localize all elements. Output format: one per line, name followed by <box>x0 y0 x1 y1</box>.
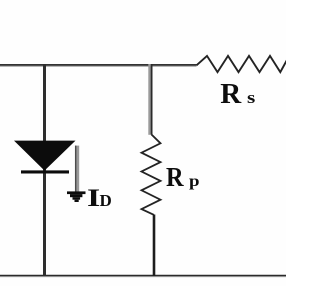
current arrow ID shaft <box>75 146 79 192</box>
label ID main I <box>87 185 100 211</box>
wire Rp branch upper (gray) <box>148 64 152 135</box>
wire diode branch vertical <box>43 64 46 276</box>
label Rs main R <box>220 80 241 109</box>
wire bottom horizontal bus <box>0 275 286 276</box>
wire top horizontal bus <box>0 65 197 66</box>
current arrow ID head <box>67 191 86 202</box>
wire Rp branch lower <box>153 215 156 277</box>
resistor Rs zigzag <box>197 56 288 72</box>
label Rp subscript p <box>189 174 200 190</box>
diode D1 triangle anode <box>14 141 76 171</box>
label Rs subscript s <box>247 89 255 106</box>
diode D1 cathode bar <box>21 170 69 173</box>
resistor Rp zigzag <box>142 135 161 215</box>
label Rp main R <box>166 164 184 191</box>
label ID subscript D <box>100 192 112 209</box>
